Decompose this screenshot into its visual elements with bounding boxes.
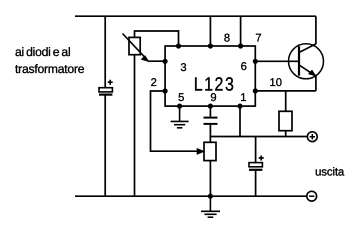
IC U1 L123 regulator box bbox=[165, 46, 255, 106]
svg-text:8: 8 bbox=[224, 32, 230, 44]
wire R2 bottom lead bbox=[285, 131, 287, 137]
wire pin 9 to C2 bbox=[209, 106, 211, 117]
wire potentiometer bottom to bottom rail bbox=[209, 161, 211, 197]
svg-text:9: 9 bbox=[210, 92, 216, 104]
junction pin 5 bbox=[177, 104, 182, 109]
svg-text:5: 5 bbox=[178, 92, 184, 104]
svg-text:6: 6 bbox=[241, 61, 247, 73]
wire C3 bottom to bottom rail bbox=[255, 170, 257, 196]
junction pin 6 bbox=[253, 59, 258, 64]
svg-text:2: 2 bbox=[151, 77, 157, 89]
ground at pin 5 bbox=[171, 106, 189, 128]
wire C2 to potentiometer top bbox=[209, 125, 211, 142]
capacitor C3 output electrolytic bbox=[249, 156, 264, 170]
capacitor C2 at pin 9 bbox=[204, 118, 218, 124]
terminal positive output bbox=[307, 132, 317, 142]
wire R2 top lead bbox=[285, 91, 287, 111]
wire top supply rail bbox=[75, 15, 316, 17]
wire trimmer top lead to IC top edge bbox=[135, 31, 179, 46]
wire emitter vertical bbox=[315, 76, 317, 91]
junction trimmer wire at IC top edge bbox=[176, 43, 181, 48]
transistor Q1 NPN bbox=[289, 44, 324, 79]
wire pin 10 to emitter bbox=[255, 90, 316, 92]
svg-text:10: 10 bbox=[269, 77, 281, 89]
wire trimmer bottom lead to bottom rail bbox=[134, 55, 136, 197]
resistor R1 trimmer wiper arrow bbox=[123, 34, 149, 62]
svg-text:3: 3 bbox=[180, 62, 186, 74]
potentiometer R4 body bbox=[197, 142, 216, 160]
wire C1 to bottom rail bbox=[104, 95, 106, 197]
junction pin 10 bbox=[253, 88, 258, 93]
junction pin 3 bbox=[163, 59, 168, 64]
wire bottom ground rail bbox=[75, 195, 307, 197]
junction pin 8 bbox=[208, 43, 213, 48]
svg-text:uscita: uscita bbox=[315, 167, 345, 179]
svg-text:ai diodi e al: ai diodi e al bbox=[15, 45, 70, 59]
resistor R2 bbox=[279, 111, 292, 130]
junction bottom rail ground bbox=[208, 194, 213, 199]
wire trimmer wiper to pin 3 bbox=[148, 60, 165, 62]
wire input vertical from rail to C1 bbox=[104, 16, 106, 88]
terminal negative output bbox=[307, 191, 317, 201]
svg-text:7: 7 bbox=[255, 33, 261, 45]
wire output rail to C3 top bbox=[255, 137, 257, 163]
wire collector drop from top rail bbox=[315, 16, 317, 44]
wire output level rail bbox=[210, 136, 307, 138]
wire pin 8 from top rail bbox=[209, 16, 211, 46]
wire pin 7 from top rail bbox=[240, 16, 242, 46]
junction pin 9 bbox=[208, 104, 213, 109]
node input label: ai diodi e al trasformatore bbox=[15, 45, 85, 76]
junction pin 2 bbox=[163, 88, 168, 93]
wire pin 1 down to output rail bbox=[239, 106, 241, 136]
wire pin 2 to potentiometer wiper bbox=[151, 91, 199, 151]
junction pin 7 bbox=[238, 43, 243, 48]
svg-text:trasformatore: trasformatore bbox=[15, 62, 85, 76]
wire pin 6 to transistor base bbox=[255, 60, 299, 62]
ground at bottom rail bbox=[201, 196, 220, 217]
resistor R1 trimmer body bbox=[129, 37, 140, 54]
junction pin 1 bbox=[237, 104, 242, 109]
capacitor C1 input electrolytic bbox=[99, 80, 113, 95]
svg-text:1: 1 bbox=[240, 92, 246, 104]
